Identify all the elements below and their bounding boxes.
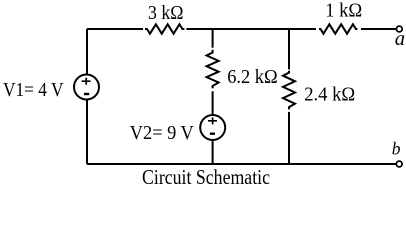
voltage source V2 (circle symbol) <box>200 115 225 140</box>
label: 6.2 kOhm value <box>227 66 278 88</box>
svg-text:V1= 4 V: V1= 4 V <box>3 79 64 101</box>
label: V2 source value <box>130 122 195 144</box>
label: 2.4 kOhm value <box>304 83 355 105</box>
wire: bottom horizontal rail <box>87 163 396 165</box>
svg-text:3 kΩ: 3 kΩ <box>148 3 184 24</box>
svg-text:2.4 kΩ: 2.4 kΩ <box>304 83 355 105</box>
label: terminal a <box>395 28 405 50</box>
svg-text:b: b <box>392 139 401 159</box>
resistor 3 kOhm (horizontal zigzag) <box>145 24 184 33</box>
svg-text:6.2 kΩ: 6.2 kΩ <box>227 66 278 88</box>
terminal node a (open circle) <box>396 26 402 32</box>
wire: right vertical upper segment <box>288 29 290 69</box>
wire: middle vertical upper segment <box>212 29 214 48</box>
terminal node b (open circle) <box>396 161 402 167</box>
caption: Circuit Schematic <box>142 165 270 189</box>
svg-text:Circuit Schematic: Circuit Schematic <box>142 165 270 189</box>
label: V1 source value <box>3 79 64 101</box>
label: terminal b <box>392 139 401 159</box>
svg-text:a: a <box>395 28 405 50</box>
wire: top middle horizontal segment (junction nodes at x=212.6 and x=289) <box>186 28 316 30</box>
resistor 6.2 kOhm (vertical zigzag) <box>207 50 219 89</box>
svg-text:1 kΩ: 1 kΩ <box>325 1 362 22</box>
resistor 1 kOhm (horizontal zigzag) <box>319 24 357 33</box>
svg-text:V2= 9 V: V2= 9 V <box>130 122 195 144</box>
wire: left vertical branch <box>86 29 88 164</box>
resistor 2.4 kOhm (vertical zigzag) <box>283 71 295 110</box>
wire: lead to terminal a <box>361 28 396 30</box>
wire: top-left horizontal segment <box>87 28 143 30</box>
label: 3 kOhm value <box>148 3 184 24</box>
label: 1 kOhm value <box>325 1 362 22</box>
wire: right vertical lower segment <box>288 112 290 164</box>
voltage source V1 (circle symbol) <box>74 75 99 100</box>
wire: middle vertical lower segment <box>212 91 214 164</box>
